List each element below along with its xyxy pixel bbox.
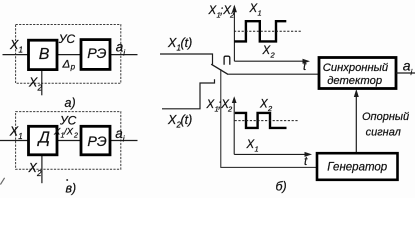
block RE (diagram v) bbox=[81, 126, 110, 155]
svg-text:(t): (t) bbox=[181, 36, 193, 50]
wire output a (diagram v) bbox=[110, 140, 138, 142]
svg-text:2: 2 bbox=[227, 105, 233, 114]
dashed enclosure US (diagram a) bbox=[16, 25, 121, 84]
svg-text:УС: УС bbox=[59, 114, 77, 128]
svg-text:2: 2 bbox=[267, 104, 273, 113]
svg-text:2: 2 bbox=[229, 11, 235, 20]
switch P label bbox=[224, 56, 230, 65]
svg-text:В: В bbox=[39, 46, 50, 63]
waveform 2 label X1 bbox=[246, 139, 259, 154]
wire switch to detector bbox=[227, 73, 319, 75]
waveform 1 axes bbox=[234, 6, 307, 61]
wire detector output a bbox=[396, 72, 415, 74]
waveform 1 y-axis arrowhead bbox=[232, 5, 237, 13]
waveform 1 label X2 bbox=[262, 45, 276, 60]
wire X2(t) to switch lower contact bbox=[162, 79, 215, 109]
block synchronous detector U1 bbox=[319, 58, 396, 89]
svg-text:X: X bbox=[28, 161, 38, 175]
control wire generator to switch bbox=[221, 69, 317, 167]
svg-text:РЭ: РЭ bbox=[87, 134, 106, 150]
node a output label (diagram a) bbox=[116, 40, 126, 58]
svg-text:2: 2 bbox=[37, 84, 43, 93]
svg-text:Опорный: Опорный bbox=[362, 111, 409, 123]
svg-text:p: p bbox=[70, 63, 76, 72]
waveform 1 label X1 bbox=[249, 3, 262, 18]
wire X2 input to block V bottom bbox=[41, 70, 43, 96]
scan mark left edge bottom bbox=[0, 178, 4, 185]
node X2 label (diagram a) bbox=[28, 76, 43, 93]
wire X1(t) to switch upper contact bbox=[160, 54, 213, 64]
block V (comparator) bbox=[29, 40, 58, 69]
wire X1 input to block D bbox=[0, 140, 29, 142]
svg-text:в): в) bbox=[66, 181, 77, 195]
svg-text:X: X bbox=[9, 38, 19, 52]
svg-text:i: i bbox=[123, 135, 125, 144]
node X2(t) label bbox=[167, 113, 192, 130]
svg-text:РЭ: РЭ bbox=[87, 46, 106, 62]
svg-text:Генератор: Генератор bbox=[327, 162, 388, 174]
wire reference signal generator to detector bbox=[355, 92, 357, 153]
waveform 2 axis label X1;X2 bbox=[206, 99, 234, 114]
svg-text:детектор: детектор bbox=[327, 75, 382, 87]
svg-text:1: 1 bbox=[19, 46, 23, 55]
waveform 1 mean dashed line bbox=[234, 30, 301, 32]
block D (divider) bbox=[29, 126, 58, 155]
waveform 2 trace bbox=[235, 113, 287, 128]
waveform 2 t-axis arrowhead bbox=[305, 152, 313, 157]
waveform 1 axis label X1;X2 bbox=[208, 5, 236, 20]
svg-text:X: X bbox=[9, 125, 19, 139]
svg-text:Синхронный: Синхронный bbox=[323, 62, 388, 74]
svg-text:а): а) bbox=[65, 96, 76, 110]
svg-text:2: 2 bbox=[73, 132, 78, 139]
svg-text:сигнал: сигнал bbox=[366, 126, 401, 138]
svg-text:X: X bbox=[167, 113, 177, 127]
wire D to RE bbox=[57, 140, 81, 142]
node X2 label (diagram v) bbox=[28, 161, 43, 178]
dashed enclosure US (diagram v) bbox=[16, 112, 121, 170]
wire output a (diagram a) bbox=[110, 54, 138, 56]
svg-text:б): б) bbox=[276, 180, 287, 194]
reference wire arrowhead bbox=[354, 89, 359, 97]
node X1 label (diagram a) bbox=[9, 38, 23, 55]
scan speck above caption v bbox=[66, 179, 68, 181]
switch P blade bbox=[211, 64, 228, 74]
svg-text:1: 1 bbox=[255, 145, 259, 154]
svg-text:2: 2 bbox=[36, 169, 42, 178]
wire V to RE bbox=[57, 54, 81, 56]
wire X1 input to block V bbox=[3, 54, 29, 56]
waveform 2 mean dashed line bbox=[235, 120, 299, 122]
block generator G1 bbox=[317, 153, 398, 180]
svg-text:(t): (t) bbox=[181, 113, 193, 127]
waveform 1 t-axis arrowhead bbox=[303, 59, 311, 64]
svg-text:X: X bbox=[28, 76, 38, 90]
waveform 2 axes bbox=[234, 98, 309, 154]
label delta_p bbox=[62, 58, 76, 71]
svg-text:i: i bbox=[123, 48, 125, 57]
node X1(t) label bbox=[167, 36, 192, 53]
waveform 2 y-axis arrowhead bbox=[232, 96, 237, 103]
waveform 2 label X2 bbox=[259, 99, 273, 114]
svg-text:УС: УС bbox=[58, 32, 76, 46]
svg-text:1: 1 bbox=[18, 132, 22, 141]
waveform 1 trace bbox=[234, 21, 286, 41]
svg-text:1: 1 bbox=[258, 9, 262, 18]
node a output label (diagram b) bbox=[403, 57, 414, 77]
node a output label (diagram v) bbox=[115, 126, 125, 144]
block RE (diagram a) bbox=[81, 40, 110, 70]
svg-text:Д: Д bbox=[37, 129, 50, 146]
svg-text:2: 2 bbox=[270, 50, 276, 59]
svg-text:/X: /X bbox=[63, 127, 74, 138]
wire X2 input to block D bottom bbox=[41, 155, 43, 183]
node X1 label (diagram v) bbox=[9, 125, 23, 142]
label X1/X2 ratio bbox=[53, 127, 78, 140]
svg-text:Δ: Δ bbox=[62, 58, 71, 70]
svg-text:X: X bbox=[167, 36, 177, 50]
